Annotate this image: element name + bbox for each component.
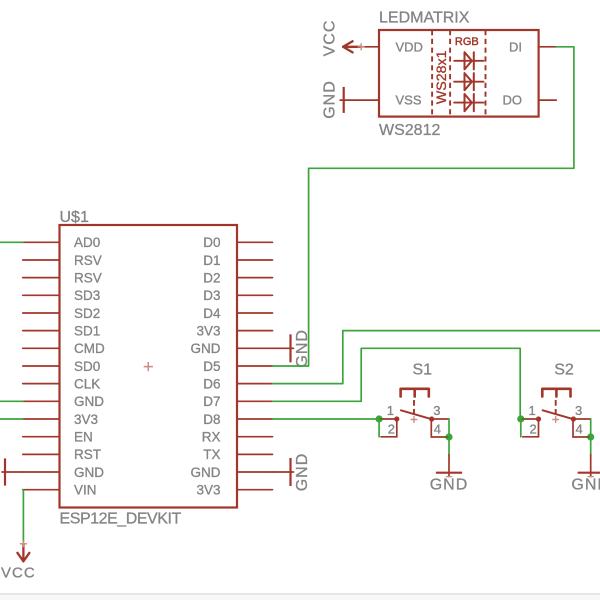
svg-text:SD1: SD1	[74, 324, 100, 339]
svg-text:3: 3	[575, 403, 582, 418]
svg-text:VDD: VDD	[396, 39, 423, 54]
svg-text:VIN: VIN	[74, 483, 97, 498]
wire S1 pin3 to pin4 to ground	[448, 419, 450, 455]
svg-text:3V3: 3V3	[74, 412, 98, 427]
svg-text:2: 2	[530, 422, 537, 437]
GND net label below S1	[430, 477, 469, 494]
ground symbol at ESP right GND pin row 14	[273, 458, 294, 486]
svg-text:RX: RX	[202, 430, 221, 445]
svg-text:GND: GND	[74, 394, 104, 409]
ESP right pin D1 (row 2)	[203, 253, 272, 268]
svg-text:SD0: SD0	[74, 359, 100, 374]
svg-text:D8: D8	[203, 412, 220, 427]
svg-text:D6: D6	[203, 377, 220, 392]
svg-text:WS2812: WS2812	[379, 122, 440, 139]
pin DI of LEDMATRIX	[509, 39, 556, 54]
ESP left pin CMD (row 7)	[23, 341, 105, 356]
switch S2 lever	[543, 410, 574, 419]
svg-text:SD2: SD2	[74, 306, 100, 321]
ESP right pin D4 (row 5)	[203, 306, 272, 321]
ground symbol at ESP left GND pin (rotated, bar)	[2, 458, 23, 485]
svg-text:D1: D1	[203, 253, 220, 268]
ESP right pin D6 (row 9)	[203, 377, 272, 392]
ESP right pin 3V3 (row 15)	[196, 483, 272, 498]
svg-text:4: 4	[576, 422, 583, 437]
pin VSS of LEDMATRIX	[340, 93, 422, 108]
svg-text:EN: EN	[74, 430, 93, 445]
GND net label at VSS (rotated)	[322, 80, 339, 119]
wire net D7 to S2 pin 1	[273, 348, 521, 419]
wire stub to AD0 (off-canvas left)	[0, 241, 23, 243]
ground symbol at VSS (vertical bar)	[343, 87, 345, 113]
svg-text:D4: D4	[203, 306, 221, 321]
svg-text:WS28x1: WS28x1	[434, 50, 450, 104]
wire S2 pin3 to pin4 to ground	[590, 419, 592, 455]
svg-text:GND: GND	[571, 477, 600, 494]
switch S2 origin cross	[552, 416, 559, 423]
svg-text:ESP12E_DEVKIT: ESP12E_DEVKIT	[60, 511, 182, 528]
svg-text:RSV: RSV	[74, 253, 102, 268]
switch S1 pin 1	[379, 403, 399, 421]
ESP left pin SD1 (row 6)	[23, 324, 100, 339]
ESP left pin RSV (row 3)	[23, 271, 102, 286]
ESP right pin D8 (row 11)	[203, 412, 272, 427]
ESP left pin RSV (row 2)	[23, 253, 102, 268]
ESP left pin EN (row 12)	[23, 430, 93, 445]
svg-text:U$1: U$1	[60, 209, 89, 226]
svg-text:3V3: 3V3	[196, 324, 220, 339]
VCC supply symbol at VDD (arrow pointing left)	[343, 41, 365, 52]
switch S2 pin 1	[521, 403, 541, 421]
svg-text:GND: GND	[74, 465, 104, 480]
junction dot S1 pin 1	[376, 415, 384, 422]
svg-text:S2: S2	[554, 362, 574, 379]
switch S1 pin 4	[431, 419, 447, 437]
GND net label below S2	[571, 477, 600, 494]
RGB label	[455, 36, 479, 48]
ESP left pin VIN (row 15)	[23, 483, 97, 498]
WS28x1 label (rotated)	[434, 50, 450, 104]
ESP right pin RX (row 12)	[202, 430, 273, 445]
switch S2 reference label	[554, 362, 574, 379]
LED matrix title LEDMATRIX	[379, 10, 470, 27]
ESP left pin CLK (row 9)	[23, 377, 100, 392]
ESP right pin TX (row 13)	[203, 447, 272, 462]
ESP left pin SD3 (row 4)	[23, 288, 100, 303]
svg-text:DO: DO	[503, 93, 523, 108]
wire stub to left GND pin (off-canvas left)	[0, 400, 23, 402]
ESP left pin 3V3 (row 11)	[23, 412, 98, 427]
svg-text:GND: GND	[294, 453, 311, 492]
svg-text:RST: RST	[74, 447, 101, 462]
svg-text:S1: S1	[413, 362, 433, 379]
svg-text:GND: GND	[322, 80, 339, 119]
LED matrix dashed section dividers	[432, 30, 485, 117]
wire stub to left 3V3 pin (off-canvas left)	[0, 418, 23, 420]
VCC net label (rotated)	[322, 20, 339, 57]
VCC supply symbol below VIN (arrow pointing down)	[17, 540, 29, 561]
svg-text:TX: TX	[203, 447, 220, 462]
ESP left pin SD2 (row 5)	[23, 306, 100, 321]
ESP right pin GND (row 14)	[191, 465, 273, 480]
ESP right pin D5 (row 8)	[203, 359, 272, 374]
svg-text:1: 1	[387, 403, 394, 418]
GND net label right of ESP (rotated) row 14	[294, 453, 311, 492]
switch S1 origin cross	[411, 416, 418, 423]
ESP left pin GND (row 14)	[23, 465, 104, 480]
pin VDD of LEDMATRIX	[361, 39, 423, 54]
svg-text:CMD: CMD	[74, 341, 105, 356]
ESP12E devkit U$1 body	[60, 225, 238, 508]
ESP right pin D2 (row 3)	[203, 271, 272, 286]
switch S1 pin 2	[381, 419, 397, 437]
junction dot S2 pin 4	[587, 433, 595, 440]
svg-text:RSV: RSV	[74, 271, 102, 286]
svg-text:4: 4	[434, 422, 441, 437]
switch S1 actuator bracket	[401, 389, 429, 418]
svg-text:1: 1	[529, 403, 536, 418]
wire S1 pin1 to pin2 junction	[378, 419, 380, 437]
svg-text:RGB: RGB	[455, 36, 479, 48]
switch S2 pin 3	[571, 403, 591, 421]
GND net label right of ESP (rotated) row 7	[294, 329, 311, 368]
wire VIN to VCC symbol	[22, 490, 24, 543]
svg-text:D2: D2	[203, 271, 220, 286]
LED matrix U2 body	[379, 30, 539, 117]
svg-text:3V3: 3V3	[196, 483, 220, 498]
svg-text:VCC: VCC	[322, 20, 339, 57]
switch S1 pin 3	[429, 403, 449, 421]
svg-text:3: 3	[433, 403, 440, 418]
LED diode 2 inside matrix	[454, 73, 483, 90]
svg-text:2: 2	[388, 422, 395, 437]
svg-text:DI: DI	[509, 39, 522, 54]
ESP right pin 3V3 (row 6)	[196, 324, 272, 339]
ground symbol below S1	[436, 455, 462, 477]
switch S1 reference label	[413, 362, 433, 379]
ESP left pin GND (row 10)	[23, 394, 104, 409]
svg-text:GND: GND	[191, 465, 221, 480]
svg-text:D3: D3	[203, 288, 220, 303]
ground symbol at ESP right GND pin row 7	[273, 334, 294, 362]
wire net D6 to off-canvas right	[273, 331, 600, 384]
svg-text:LEDMATRIX: LEDMATRIX	[379, 10, 470, 27]
svg-text:GND: GND	[191, 341, 221, 356]
ESP left pin AD0 (row 1)	[23, 235, 100, 250]
ESP right pin D7 (row 10)	[203, 394, 272, 409]
LED diode 1 inside matrix	[454, 52, 483, 69]
ESP right pin D0 (row 1)	[203, 235, 272, 250]
svg-text:D5: D5	[203, 359, 220, 374]
wire S2 pin1 to pin2 junction	[520, 419, 522, 437]
svg-text:VCC: VCC	[1, 565, 36, 582]
switch S2 actuator bracket	[542, 389, 570, 418]
svg-text:CLK: CLK	[74, 377, 100, 392]
svg-text:SD3: SD3	[74, 288, 100, 303]
ESP left pin RST (row 13)	[23, 447, 101, 462]
ESP left pin SD0 (row 8)	[23, 359, 100, 374]
ESP origin cross	[144, 362, 153, 371]
WS2812 value label	[379, 122, 440, 139]
wire net D8 to S1 pin 1	[273, 418, 380, 420]
schematic canvas bottom edge	[0, 593, 600, 600]
VCC net label bottom left	[1, 565, 36, 582]
svg-text:AD0: AD0	[74, 235, 100, 250]
pin DO of LEDMATRIX	[503, 93, 557, 108]
LED diode 3 inside matrix	[454, 94, 483, 111]
junction dot S2 pin 1	[517, 415, 525, 422]
ESP devkit reference U$1	[60, 209, 89, 226]
junction dot S1 pin 4	[445, 433, 453, 440]
ESP right pin D3 (row 4)	[203, 288, 272, 303]
svg-text:D0: D0	[203, 235, 220, 250]
svg-text:VSS: VSS	[396, 93, 422, 108]
ground symbol below S2	[578, 455, 600, 477]
ESP right pin GND (row 7)	[191, 341, 273, 356]
switch S2 pin 2	[523, 419, 539, 437]
wire net DI to ESP D5	[273, 47, 574, 366]
switch S2 pin 4	[573, 419, 589, 437]
switch S1 lever	[401, 410, 432, 419]
svg-text:D7: D7	[203, 394, 220, 409]
ESP12E_DEVKIT value label	[60, 511, 182, 528]
svg-text:GND: GND	[430, 477, 469, 494]
